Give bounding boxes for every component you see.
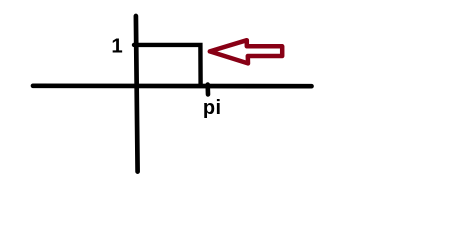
svg-text:1: 1 bbox=[111, 35, 122, 57]
y axis bbox=[136, 16, 138, 172]
step top and right edge bbox=[134, 45, 201, 85]
tick at pi bbox=[205, 85, 210, 95]
arrow bbox=[210, 40, 282, 63]
x axis bbox=[33, 83, 312, 88]
svg-text:pi: pi bbox=[203, 97, 222, 119]
